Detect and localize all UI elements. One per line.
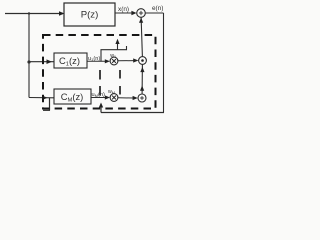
- ellipsis dashed column left: [99, 70, 101, 96]
- summing junction bottom: [138, 94, 146, 102]
- wire P out: [115, 12, 132, 14]
- arrowhead into P(z): [59, 11, 65, 16]
- svg-text:x(n): x(n): [118, 6, 129, 13]
- svg-text:CM(z): CM(z): [61, 91, 84, 104]
- wire feedback bottom-left stub: [43, 109, 50, 111]
- arrowhead uM into multiplier: [105, 95, 110, 99]
- arrowhead into CM: [42, 96, 48, 101]
- arrowhead chain into mid summer: [140, 67, 144, 72]
- svg-text:u1(n): u1(n): [88, 56, 100, 62]
- wire e(n) feedback up into box: [100, 105, 102, 113]
- arrowhead into bottom summer: [133, 96, 138, 100]
- svg-text:uM(n): uM(n): [92, 92, 105, 98]
- weight update arrow w1: [117, 42, 119, 50]
- wire reference bus vertical: [28, 14, 30, 98]
- arrowhead into C1: [47, 59, 53, 64]
- arrowhead into mid summer: [133, 58, 138, 62]
- ellipsis dashed column right: [119, 70, 121, 96]
- wire multiplier1 to mid summer: [118, 60, 134, 62]
- wire feedback drop left: [49, 98, 51, 111]
- wire e(n) feedback bottom: [101, 112, 164, 114]
- wire into C1: [29, 61, 54, 63]
- multiplier X row2: [110, 94, 118, 102]
- block C1(z): [54, 53, 87, 68]
- svg-text:e(n): e(n): [152, 5, 163, 12]
- arrowhead chain mid-line: [140, 86, 144, 91]
- wire multiplier2 to bottom summer: [118, 97, 133, 99]
- svg-text:C1(z): C1(z): [59, 55, 80, 68]
- wire e(n) output right: [145, 12, 163, 14]
- arrowhead e(n) into adaptive box: [99, 103, 103, 108]
- node branch junction: [28, 12, 30, 14]
- weight tap wire w1: [101, 46, 127, 61]
- node junction to C1: [27, 60, 30, 63]
- multiplier X row1: [110, 57, 118, 65]
- arrowhead u1 into multiplier: [105, 59, 110, 63]
- svg-text:P(z): P(z): [81, 10, 99, 21]
- wire u1: [87, 60, 106, 62]
- block CM(z): [54, 89, 91, 104]
- arrowhead into top summer: [131, 11, 136, 15]
- summing junction top: [137, 9, 146, 18]
- dashed adaptive filter box: [43, 35, 156, 109]
- wire into CM: [29, 97, 54, 99]
- wire e(n) down right side: [163, 13, 165, 113]
- wire uM: [91, 97, 106, 99]
- wire chain bottom summer up to mid summer: [141, 64, 143, 94]
- wire input x: [5, 13, 63, 15]
- arrowhead chain into top summer: [139, 18, 143, 23]
- summing junction mid: [139, 57, 147, 65]
- block P(z): [64, 3, 115, 26]
- wire chain mid summer up to top summer: [141, 17, 142, 57]
